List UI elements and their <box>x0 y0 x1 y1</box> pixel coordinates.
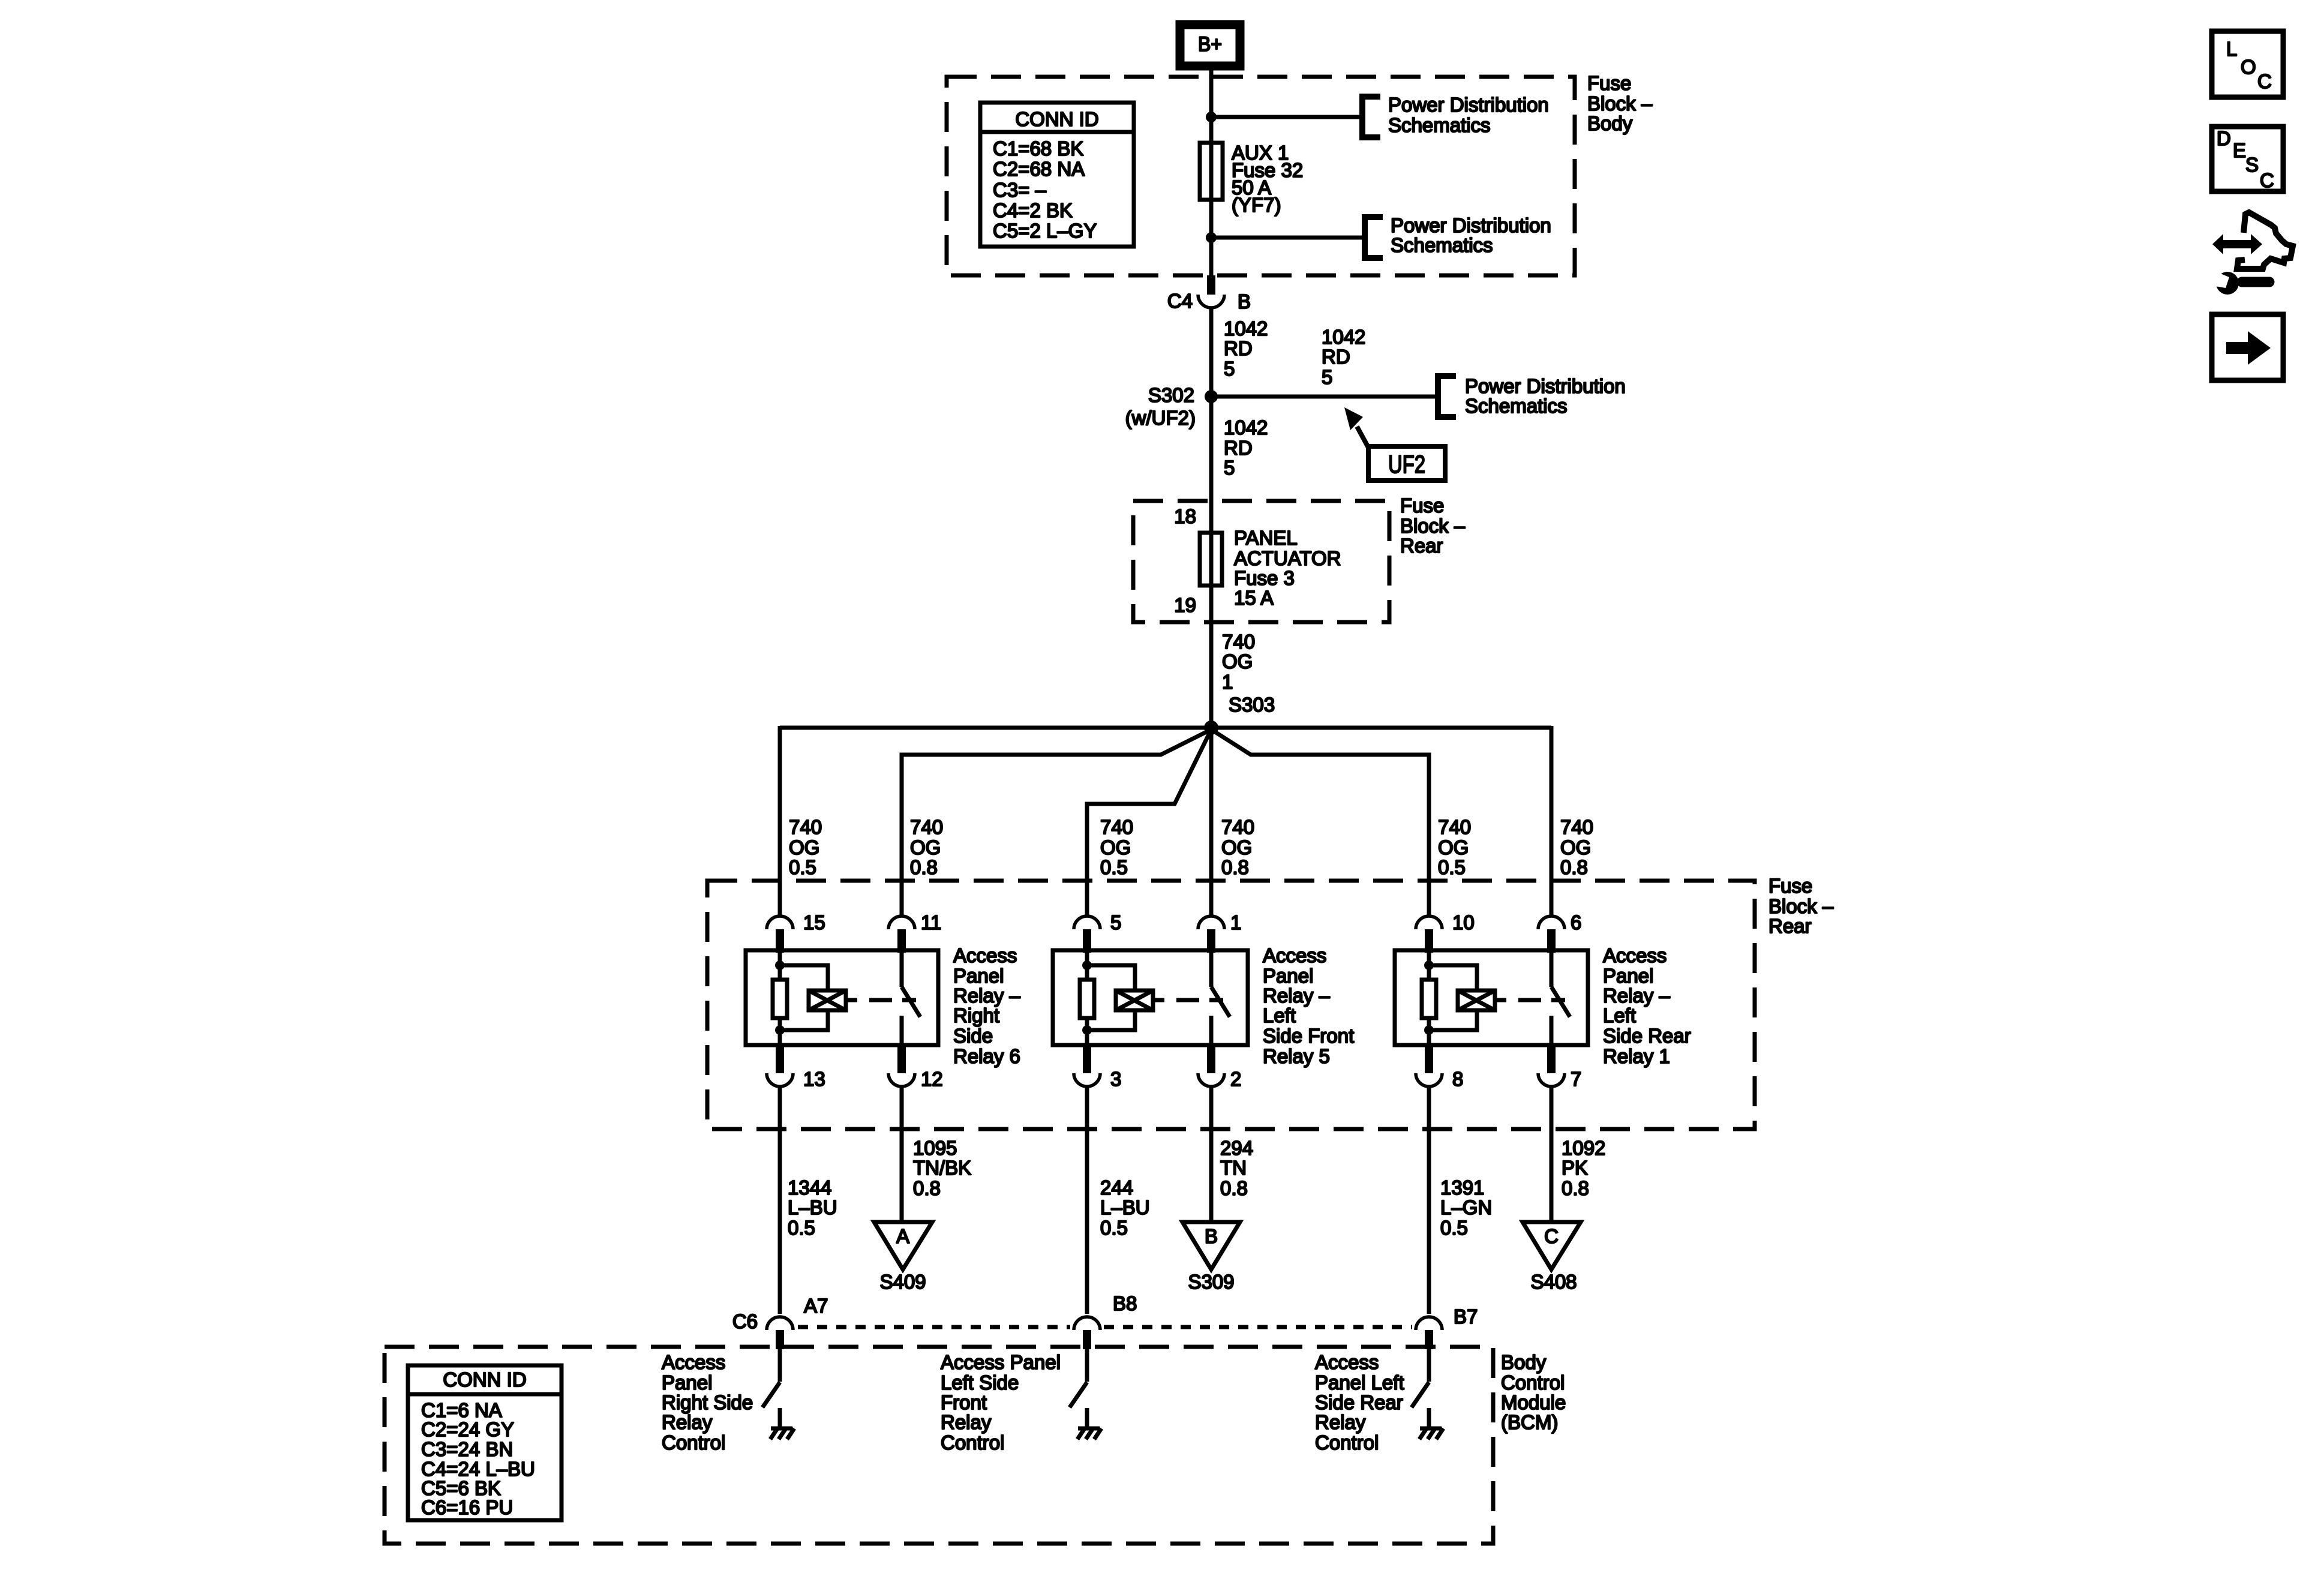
wire label 740 OG 0.8 (branch 4) <box>1221 816 1254 878</box>
wire S303 diagonal branch to pin 11 <box>902 730 1211 915</box>
svg-text:12: 12 <box>921 1068 943 1090</box>
svg-text:RD: RD <box>1322 346 1350 368</box>
svg-text:740: 740 <box>1222 631 1255 653</box>
svg-text:740: 740 <box>910 816 943 838</box>
Body Control Module dashed outline <box>385 1347 1493 1544</box>
relay Access|Panel|Relay –|Right|Side|Relay 6 coil branch wiring <box>780 953 828 1045</box>
svg-text:PK: PK <box>1562 1157 1588 1179</box>
svg-text:Panel: Panel <box>662 1371 712 1394</box>
svg-text:Side: Side <box>953 1025 993 1047</box>
Fuse Block - Rear dashed outline (panel actuator fuse) <box>1133 501 1389 622</box>
svg-text:C: C <box>1544 1225 1559 1247</box>
relay Access|Panel|Relay –|Left|Side Front|Relay 5 actuation dashed link <box>1176 998 1223 1002</box>
svg-text:O: O <box>2241 56 2256 78</box>
BCM control label left side rear <box>1315 1351 1404 1454</box>
svg-text:C: C <box>2260 169 2274 191</box>
svg-text:A7: A7 <box>804 1295 828 1317</box>
svg-text:1095: 1095 <box>913 1137 957 1159</box>
node relay Access|Panel|Relay –|Left|Side Rear|Relay 1 coil bottom <box>1424 1025 1434 1035</box>
wire S303 diagonal branch to pin 5 <box>1087 730 1211 915</box>
wire label 740 OG 0.5 (branch 1) <box>789 816 822 878</box>
svg-text:L: L <box>2226 38 2237 60</box>
wire to Power Distribution Schematics (lower) <box>1211 236 1362 240</box>
fuse PANEL ACTUATOR Fuse 3 15 A <box>1200 533 1222 586</box>
svg-text:Control: Control <box>941 1431 1004 1454</box>
svg-text:740: 740 <box>1560 816 1593 838</box>
svg-text:0.8: 0.8 <box>913 1177 941 1199</box>
wire label 244 L-BU 0.5 <box>1100 1176 1150 1239</box>
svg-text:Side Rear: Side Rear <box>1603 1025 1691 1047</box>
svg-text:B7: B7 <box>1454 1305 1478 1328</box>
relay coil Access|Panel|Relay –|Left|Side Rear|Relay 1 <box>1458 990 1506 1010</box>
svg-text:Rear: Rear <box>1400 535 1443 557</box>
connector dotted interface line <box>798 1325 1412 1329</box>
wire pin 8 to BCM B7 <box>1427 1088 1431 1314</box>
svg-text:Schematics: Schematics <box>1391 234 1493 256</box>
svg-text:Power Distribution: Power Distribution <box>1388 94 1549 116</box>
resistor relay Access|Panel|Relay –|Right|Side|Relay 6 <box>773 980 787 1018</box>
splice triangle A / S409 <box>874 1222 932 1293</box>
svg-text:E: E <box>2233 139 2246 161</box>
ground right side <box>770 1428 794 1439</box>
svg-text:Fuse: Fuse <box>1400 494 1444 517</box>
svg-text:Left: Left <box>1603 1004 1636 1026</box>
svg-text:15 A: 15 A <box>1234 587 1274 609</box>
svg-text:OG: OG <box>1221 836 1252 858</box>
svg-text:Right Side: Right Side <box>662 1391 753 1413</box>
relay Access|Panel|Relay –|Left|Side Front|Relay 5 switch <box>1211 953 1230 1045</box>
svg-text:Relay: Relay <box>941 1411 992 1433</box>
svg-text:7: 7 <box>1571 1068 1581 1090</box>
svg-text:0.8: 0.8 <box>910 856 938 878</box>
connector B8 (BCM) <box>1074 1292 1137 1349</box>
svg-text:TN/BK: TN/BK <box>913 1157 971 1179</box>
svg-text:Block –: Block – <box>1400 515 1466 537</box>
ground left side front <box>1077 1428 1101 1439</box>
svg-text:Block –: Block – <box>1587 92 1653 115</box>
svg-text:Left: Left <box>1263 1004 1296 1026</box>
resistor relay Access|Panel|Relay –|Left|Side Front|Relay 5 <box>1080 980 1094 1018</box>
wire S303 diagonal branch to pin 10 <box>1211 730 1429 915</box>
relay coil-side top connector pin 15 <box>767 911 825 953</box>
svg-text:UF2: UF2 <box>1388 450 1425 478</box>
svg-text:1: 1 <box>1230 911 1241 933</box>
BCM control label left side front <box>941 1351 1061 1454</box>
wire label 294 TN 0.8 <box>1220 1137 1253 1199</box>
svg-text:6: 6 <box>1571 911 1581 933</box>
BCM driver switch left side rear <box>1412 1349 1429 1428</box>
relay switch-side top connector pin 1 <box>1198 911 1241 953</box>
Power Distribution Schematics label (lower) <box>1391 214 1551 256</box>
relay coil-side bottom connector pin 8 <box>1416 1045 1463 1090</box>
svg-text:OG: OG <box>1100 836 1131 858</box>
svg-text:0.8: 0.8 <box>1221 856 1249 878</box>
Fuse Block - Rear label (small) <box>1400 494 1466 557</box>
svg-text:Control: Control <box>1315 1431 1379 1454</box>
Fuse Block - Body dashed outline <box>947 77 1575 275</box>
relay box Access|Panel|Relay –|Left|Side Front|Relay 5 <box>1053 950 1248 1045</box>
svg-text:Schematics: Schematics <box>1465 395 1568 417</box>
CONN ID table (Fuse Block - Body) <box>980 103 1134 247</box>
svg-text:C2=68 NA: C2=68 NA <box>993 158 1085 180</box>
relay box Access|Panel|Relay –|Right|Side|Relay 6 <box>746 950 938 1045</box>
wire label 740 OG 0.5 (branch 3) <box>1100 816 1133 878</box>
wire pin 2 to splice triangle B <box>1209 1088 1214 1222</box>
wire S303 branch left outer down to pin 15 <box>778 726 782 915</box>
svg-text:Relay: Relay <box>662 1411 713 1433</box>
svg-text:Right: Right <box>953 1004 999 1026</box>
svg-text:L–BU: L–BU <box>1100 1196 1150 1218</box>
svg-text:3: 3 <box>1110 1068 1121 1090</box>
BCM driver switch right side <box>762 1349 780 1428</box>
svg-text:PANEL: PANEL <box>1234 527 1298 549</box>
BCM driver switch left side front <box>1070 1349 1087 1428</box>
wire S303 branch right outer down to pin 6 <box>1550 726 1554 915</box>
relay label Access|Panel|Relay –|Left|Side Rear|Relay 1 <box>1603 944 1691 1067</box>
wire label 1042 RD 5 (branch) <box>1322 326 1365 388</box>
relay coil-side bottom connector pin 3 <box>1074 1045 1121 1090</box>
wire pin 7 to splice triangle C <box>1550 1088 1554 1222</box>
svg-text:C5=2 L–GY: C5=2 L–GY <box>993 220 1097 242</box>
svg-text:1042: 1042 <box>1224 317 1268 340</box>
relay switch-side top connector pin 11 <box>888 911 941 953</box>
svg-text:Fuse: Fuse <box>1768 875 1812 897</box>
node junction lower <box>1206 232 1217 243</box>
svg-text:C1=68 BK: C1=68 BK <box>993 137 1083 160</box>
PANEL ACTUATOR label <box>1234 527 1341 609</box>
svg-text:0.5: 0.5 <box>1100 1217 1128 1239</box>
svg-text:S408: S408 <box>1530 1271 1577 1293</box>
CONN ID table (BCM) <box>408 1365 562 1520</box>
svg-text:Module: Module <box>1501 1391 1566 1413</box>
svg-text:Rear: Rear <box>1768 915 1812 937</box>
svg-text:13: 13 <box>803 1068 825 1090</box>
svg-text:B+: B+ <box>1198 33 1222 56</box>
svg-text:OG: OG <box>1438 836 1469 858</box>
relay Access|Panel|Relay –|Left|Side Rear|Relay 1 actuation dashed link <box>1518 998 1565 1002</box>
svg-text:5: 5 <box>1224 358 1235 380</box>
svg-text:Body: Body <box>1501 1351 1547 1373</box>
svg-text:740: 740 <box>1221 816 1254 838</box>
relay Access|Panel|Relay –|Right|Side|Relay 6 actuation dashed link <box>869 998 916 1002</box>
svg-text:S309: S309 <box>1188 1271 1234 1293</box>
relay switch-side bottom connector pin 2 <box>1198 1045 1241 1090</box>
node relay Access|Panel|Relay –|Left|Side Rear|Relay 1 coil top <box>1424 960 1434 970</box>
relay coil-side top connector pin 5 <box>1074 911 1121 953</box>
svg-text:A: A <box>896 1225 909 1247</box>
svg-text:0.5: 0.5 <box>789 856 816 878</box>
relay coil Access|Panel|Relay –|Left|Side Front|Relay 5 <box>1116 990 1164 1010</box>
wire label 1391 L-GN 0.5 <box>1440 1176 1492 1239</box>
svg-text:0.5: 0.5 <box>1438 856 1466 878</box>
relay coil-side bottom connector pin 13 <box>767 1045 825 1090</box>
battery feed terminal B+ <box>1180 25 1240 66</box>
svg-text:5: 5 <box>1322 366 1332 388</box>
svg-text:1042: 1042 <box>1322 326 1365 348</box>
svg-text:740: 740 <box>1438 816 1471 838</box>
relay Access|Panel|Relay –|Left|Side Rear|Relay 1 coil branch wiring <box>1429 953 1477 1045</box>
svg-text:L–GN: L–GN <box>1440 1196 1492 1218</box>
wire label 1042 RD 5 (below S302) <box>1224 416 1268 479</box>
svg-text:CONN ID: CONN ID <box>1015 108 1098 130</box>
svg-text:2: 2 <box>1230 1068 1241 1090</box>
svg-text:Relay –: Relay – <box>1603 984 1671 1007</box>
svg-text:Side Rear: Side Rear <box>1315 1391 1403 1413</box>
svg-text:5: 5 <box>1224 457 1235 479</box>
svg-text:C4=2 BK: C4=2 BK <box>993 199 1073 221</box>
relay switch-side top connector pin 6 <box>1538 911 1581 953</box>
svg-text:OG: OG <box>789 836 819 858</box>
svg-text:1092: 1092 <box>1562 1137 1605 1159</box>
svg-text:Schematics: Schematics <box>1388 114 1491 136</box>
Power Distribution Schematics label (S302) <box>1465 375 1626 417</box>
svg-text:S: S <box>2245 154 2259 176</box>
svg-text:C4: C4 <box>1167 290 1193 312</box>
connector B7 (BCM) <box>1416 1305 1478 1349</box>
off-page bracket lower <box>1365 217 1383 258</box>
svg-text:Panel: Panel <box>953 965 1004 987</box>
svg-text:Body: Body <box>1587 112 1633 134</box>
wire label 1042 RD 5 (above S302) <box>1224 317 1268 380</box>
svg-text:C3= –: C3= – <box>993 179 1047 201</box>
wire label 740 OG 0.5 (branch 5) <box>1438 816 1471 878</box>
wire label 740 OG 0.8 (branch 6) <box>1560 816 1593 878</box>
svg-text:S303: S303 <box>1229 694 1275 716</box>
svg-text:5: 5 <box>1110 911 1121 933</box>
svg-text:0.5: 0.5 <box>1100 856 1128 878</box>
svg-text:B: B <box>1205 1225 1218 1247</box>
BCM control label right side <box>662 1351 753 1454</box>
svg-text:Access: Access <box>1315 1351 1379 1373</box>
svg-text:Power Distribution: Power Distribution <box>1391 214 1551 236</box>
svg-text:10: 10 <box>1452 911 1475 933</box>
wire to Power Distribution Schematics (upper) <box>1211 115 1359 119</box>
splice triangle B / S309 <box>1182 1222 1240 1293</box>
pin 19 label <box>1174 594 1196 616</box>
icon diagnostic wrench <box>2211 212 2293 295</box>
svg-text:ACTUATOR: ACTUATOR <box>1234 547 1341 569</box>
off-page bracket upper <box>1362 97 1380 137</box>
svg-text:S302: S302 <box>1148 384 1194 406</box>
relay box Access|Panel|Relay –|Left|Side Rear|Relay 1 <box>1395 950 1588 1045</box>
svg-text:0.5: 0.5 <box>788 1217 815 1239</box>
relay label Access|Panel|Relay –|Left|Side Front|Relay 5 <box>1263 944 1354 1067</box>
connector C4 pin B <box>1167 275 1251 313</box>
svg-text:1: 1 <box>1222 671 1233 693</box>
svg-text:0.8: 0.8 <box>1560 856 1588 878</box>
svg-text:Fuse: Fuse <box>1587 72 1631 94</box>
svg-text:15: 15 <box>803 911 825 933</box>
wire label 1344 L-BU 0.5 <box>788 1176 837 1239</box>
svg-text:Relay 5: Relay 5 <box>1263 1045 1330 1067</box>
svg-text:(YF7): (YF7) <box>1232 194 1281 216</box>
svg-text:OG: OG <box>1560 836 1591 858</box>
svg-text:19: 19 <box>1174 594 1196 616</box>
svg-text:Relay 6: Relay 6 <box>953 1045 1020 1067</box>
svg-text:294: 294 <box>1220 1137 1253 1159</box>
UF2 callout box with arrow <box>1344 407 1445 481</box>
svg-text:0.8: 0.8 <box>1562 1177 1589 1199</box>
resistor relay Access|Panel|Relay –|Left|Side Rear|Relay 1 <box>1422 980 1436 1018</box>
svg-text:Left Side: Left Side <box>941 1371 1019 1394</box>
svg-text:Side Front: Side Front <box>1263 1025 1354 1047</box>
wire pin 12 to splice triangle A <box>900 1088 904 1222</box>
svg-text:C: C <box>2257 70 2272 92</box>
svg-text:D: D <box>2217 127 2231 149</box>
icon DESC box <box>2212 127 2283 191</box>
relay coil Access|Panel|Relay –|Right|Side|Relay 6 <box>809 990 857 1010</box>
svg-text:C2=24 GY: C2=24 GY <box>421 1418 514 1440</box>
svg-text:Access: Access <box>1603 944 1667 966</box>
svg-text:OG: OG <box>910 836 941 858</box>
svg-text:Access Panel: Access Panel <box>941 1351 1061 1373</box>
svg-text:RD: RD <box>1224 437 1253 459</box>
svg-text:Panel: Panel <box>1263 965 1313 987</box>
splice S302 <box>1125 384 1218 429</box>
wire S302 to Power Distribution Schematics <box>1211 395 1435 399</box>
pin 18 label <box>1174 505 1196 527</box>
svg-text:S409: S409 <box>879 1271 926 1293</box>
relay Access|Panel|Relay –|Left|Side Front|Relay 5 coil branch wiring <box>1087 953 1135 1045</box>
svg-text:1042: 1042 <box>1224 416 1268 439</box>
node relay Access|Panel|Relay –|Left|Side Front|Relay 5 coil bottom <box>1082 1025 1092 1035</box>
svg-text:TN: TN <box>1220 1157 1247 1179</box>
fuse AUX 1 Fuse 32 50 A <box>1200 143 1223 200</box>
connector C6 pin A7 (BCM) <box>732 1295 828 1349</box>
svg-text:OG: OG <box>1222 650 1253 673</box>
wire pin 13 to BCM C6 <box>778 1088 782 1314</box>
svg-text:RD: RD <box>1224 337 1253 359</box>
svg-text:(BCM): (BCM) <box>1501 1411 1558 1433</box>
off-page bracket S302 <box>1438 376 1456 417</box>
svg-text:1391: 1391 <box>1440 1176 1484 1199</box>
relay label Access|Panel|Relay –|Right|Side|Relay 6 <box>953 944 1021 1067</box>
svg-text:Panel: Panel <box>1603 965 1653 987</box>
wire label 1095 TN/BK 0.8 <box>913 1137 971 1199</box>
Body Control Module label <box>1501 1351 1566 1433</box>
svg-text:Power Distribution: Power Distribution <box>1465 375 1626 397</box>
svg-text:740: 740 <box>789 816 822 838</box>
svg-text:B: B <box>1238 290 1251 313</box>
svg-text:Control: Control <box>662 1431 725 1454</box>
svg-text:0.8: 0.8 <box>1220 1177 1248 1199</box>
relay Access|Panel|Relay –|Right|Side|Relay 6 switch <box>902 953 920 1045</box>
node relay Access|Panel|Relay –|Left|Side Front|Relay 5 coil top <box>1082 960 1092 970</box>
splice S303 <box>1204 694 1275 735</box>
Power Distribution Schematics label (upper) <box>1388 94 1549 136</box>
wire S303 straight down to pin 1 <box>1209 728 1214 915</box>
svg-text:C6: C6 <box>732 1310 758 1332</box>
Fuse Block - Rear dashed outline (relay block) <box>707 881 1755 1129</box>
svg-text:C6=16 PU: C6=16 PU <box>421 1496 513 1518</box>
svg-text:(w/UF2): (w/UF2) <box>1125 407 1196 429</box>
wire label 740 OG 0.8 (branch 2) <box>910 816 943 878</box>
node relay Access|Panel|Relay –|Right|Side|Relay 6 coil bottom <box>775 1025 785 1035</box>
relay Access|Panel|Relay –|Left|Side Rear|Relay 1 switch <box>1551 953 1570 1045</box>
ground left side rear <box>1419 1428 1443 1439</box>
node junction upper <box>1206 112 1217 122</box>
svg-text:Relay –: Relay – <box>953 984 1021 1007</box>
svg-text:Control: Control <box>1501 1371 1565 1394</box>
wire B+ to fuse AUX 1 <box>1209 70 1214 275</box>
svg-text:8: 8 <box>1452 1068 1463 1090</box>
svg-text:Fuse 3: Fuse 3 <box>1234 567 1295 589</box>
svg-text:244: 244 <box>1100 1176 1133 1199</box>
wire C4 to S302 <box>1209 309 1214 728</box>
svg-text:Relay –: Relay – <box>1263 984 1331 1007</box>
node relay Access|Panel|Relay –|Right|Side|Relay 6 coil top <box>775 960 785 970</box>
relay switch-side bottom connector pin 12 <box>888 1045 943 1090</box>
svg-text:740: 740 <box>1100 816 1133 838</box>
svg-text:11: 11 <box>921 911 941 933</box>
relay coil-side top connector pin 10 <box>1416 911 1475 953</box>
svg-text:C3=24 BN: C3=24 BN <box>421 1438 513 1460</box>
relay switch-side bottom connector pin 7 <box>1538 1045 1581 1090</box>
wire pin 3 to BCM B8 <box>1085 1088 1089 1314</box>
svg-text:Relay 1: Relay 1 <box>1603 1045 1670 1067</box>
svg-text:Front: Front <box>941 1391 987 1413</box>
svg-text:Access: Access <box>953 944 1017 966</box>
svg-text:Access: Access <box>662 1351 725 1373</box>
svg-text:Access: Access <box>1263 944 1326 966</box>
wire label 740 OG 1 <box>1222 631 1255 693</box>
svg-text:0.5: 0.5 <box>1440 1217 1468 1239</box>
svg-text:B8: B8 <box>1113 1292 1137 1314</box>
Fuse Block - Rear label (relay block) <box>1768 875 1834 937</box>
wire main horizontal from S303 <box>780 726 1551 730</box>
icon forward arrow box <box>2212 314 2283 380</box>
wire label 1092 PK 0.8 <box>1562 1137 1605 1199</box>
svg-text:Relay: Relay <box>1315 1411 1366 1433</box>
icon LOC box <box>2212 31 2283 97</box>
Fuse Block - Body label <box>1587 72 1653 134</box>
svg-text:1344: 1344 <box>788 1176 831 1199</box>
svg-text:CONN ID: CONN ID <box>443 1368 526 1391</box>
svg-text:L–BU: L–BU <box>788 1196 837 1218</box>
splice triangle C / S408 <box>1523 1222 1581 1293</box>
svg-text:18: 18 <box>1174 505 1196 527</box>
svg-text:Panel Left: Panel Left <box>1315 1371 1404 1394</box>
fuse AUX 1 label <box>1232 142 1303 216</box>
svg-text:Block –: Block – <box>1768 895 1834 917</box>
